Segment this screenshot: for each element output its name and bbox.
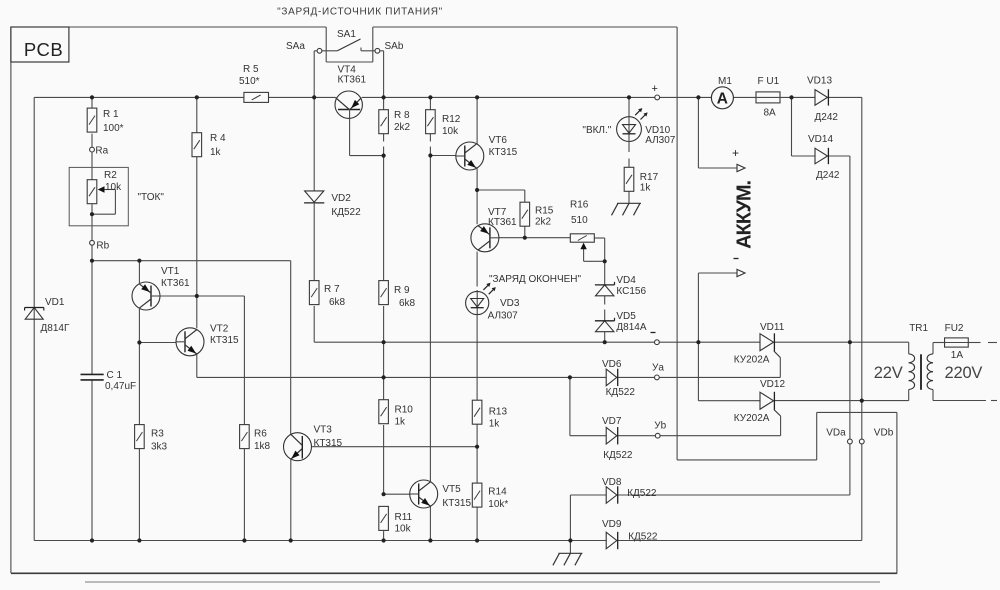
svg-text:R16: R16 [570,200,589,211]
svg-text:КТ361: КТ361 [161,278,190,289]
svg-text:VD8: VD8 [602,477,622,488]
svg-text:R17: R17 [640,172,659,183]
svg-text:3k3: 3k3 [151,442,168,453]
svg-text:22V: 22V [874,364,903,382]
svg-text:КТ361: КТ361 [488,217,517,228]
svg-text:SAa: SAa [286,41,305,52]
svg-text:Д242: Д242 [815,112,839,123]
svg-text:VD5: VD5 [616,311,636,322]
svg-text:РСВ: РСВ [24,39,63,60]
svg-text:КТ315: КТ315 [314,438,343,449]
svg-text:10k: 10k [442,126,459,137]
svg-text:АЛ307: АЛ307 [645,135,676,146]
svg-text:10k: 10k [105,182,122,193]
svg-text:6k8: 6k8 [399,298,416,309]
svg-text:R11: R11 [395,512,413,523]
svg-text:VD2: VD2 [331,193,351,204]
svg-text:R12: R12 [442,114,461,125]
svg-text:АЛ307: АЛ307 [488,311,519,322]
svg-text:КД522: КД522 [331,207,361,218]
svg-text:1k: 1k [395,417,407,428]
svg-text:VDb: VDb [874,428,894,439]
svg-text:КТ315: КТ315 [489,147,518,158]
svg-text:10k: 10k [395,524,412,535]
svg-text:Rb: Rb [96,241,109,252]
svg-text:VT2: VT2 [210,324,229,335]
svg-text:FU2: FU2 [945,323,964,334]
svg-text:TR1: TR1 [909,323,928,334]
svg-text:КТ361: КТ361 [338,75,367,86]
svg-text:Уb: Уb [654,421,666,432]
svg-text:VD9: VD9 [602,519,622,530]
svg-text:8A: 8A [764,108,777,119]
svg-text:10k*: 10k* [488,499,508,510]
svg-text:"ВКЛ.": "ВКЛ." [582,125,611,136]
svg-text:КТ315: КТ315 [442,498,471,509]
svg-text:R13: R13 [489,407,508,418]
svg-text:1k: 1k [210,147,222,158]
svg-text:VT3: VT3 [314,425,333,436]
svg-text:510*: 510* [239,76,260,87]
svg-text:R 1: R 1 [103,109,119,120]
svg-text:Д814А: Д814А [616,322,646,333]
svg-text:A: A [717,90,728,107]
svg-text:КС156: КС156 [616,286,646,297]
svg-text:F U1: F U1 [758,76,780,87]
svg-text:VD12: VD12 [760,379,785,390]
svg-text:VD14: VD14 [808,134,833,145]
svg-text:VD4: VD4 [616,275,636,286]
svg-text:SA1: SA1 [337,29,356,40]
svg-text:VD7: VD7 [602,416,622,427]
svg-text:1k8: 1k8 [254,441,271,452]
svg-text:+: + [652,83,658,95]
svg-text:100*: 100* [103,123,124,134]
svg-text:1k: 1k [640,183,652,194]
svg-text:2k2: 2k2 [535,217,552,228]
svg-text:R 7: R 7 [324,284,340,295]
svg-text:R 9: R 9 [394,285,410,296]
svg-text:VD3: VD3 [500,298,520,309]
svg-text:510: 510 [571,215,588,226]
svg-text:VT5: VT5 [442,484,461,495]
svg-text:КД522: КД522 [627,488,657,499]
svg-text:КУ202А: КУ202А [734,413,770,424]
svg-text:1A: 1A [951,350,964,361]
svg-text:КУ202А: КУ202А [734,355,770,366]
svg-text:КД522: КД522 [606,387,636,398]
svg-text:1k: 1k [489,419,501,430]
svg-text:"ТОК": "ТОК" [138,192,165,203]
svg-text:R6: R6 [254,429,267,440]
svg-text:R3: R3 [151,429,164,440]
svg-text:АККУМ.: АККУМ. [734,180,756,248]
svg-text:VT6: VT6 [489,135,508,146]
svg-text:6k8: 6k8 [329,297,346,308]
svg-text:+: + [732,146,739,160]
svg-text:VDa: VDa [826,428,846,439]
svg-text:Уa: Уa [652,363,664,374]
svg-text:"ЗАРЯД ОКОНЧЕН": "ЗАРЯД ОКОНЧЕН" [489,274,582,285]
svg-text:R14: R14 [488,487,507,498]
svg-text:Д814Г: Д814Г [41,323,70,334]
svg-text:"ЗАРЯД-ИСТОЧНИК ПИТАНИЯ": "ЗАРЯД-ИСТОЧНИК ПИТАНИЯ" [277,7,443,18]
svg-text:VD11: VD11 [760,322,785,333]
svg-text:КД522: КД522 [603,450,633,461]
svg-text:VD6: VD6 [602,359,622,370]
svg-text:220V: 220V [945,364,983,382]
svg-text:SAb: SAb [385,41,404,52]
svg-text:R 5: R 5 [243,64,259,75]
svg-text:R10: R10 [395,405,414,416]
svg-text:Д242: Д242 [816,170,840,181]
svg-text:VD1: VD1 [45,297,65,308]
svg-text:КД522: КД522 [628,532,658,543]
svg-text:2k2: 2k2 [394,122,411,133]
svg-text:Ra: Ra [95,146,108,157]
svg-text:R15: R15 [535,206,554,217]
svg-text:R 4: R 4 [210,133,226,144]
svg-text:R 8: R 8 [394,110,410,121]
svg-text:КТ315: КТ315 [210,335,239,346]
svg-text:VT1: VT1 [161,266,180,277]
svg-text:C 1: C 1 [107,370,123,381]
svg-text:M1: M1 [718,76,732,87]
svg-text:R2: R2 [104,170,117,181]
svg-text:0,47uF: 0,47uF [105,381,136,392]
svg-text:VD13: VD13 [807,76,832,87]
